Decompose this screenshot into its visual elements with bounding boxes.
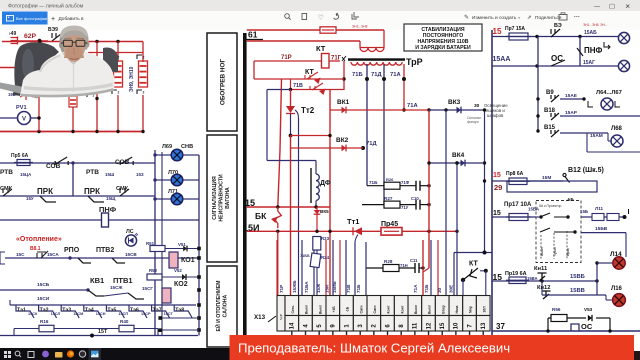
webcam person chair back [14,42,59,93]
svg-text:Тэ4: Тэ4 [85,308,94,314]
svg-text:2: 2 [118,91,120,95]
taskbar app purple [42,351,49,358]
svg-text:15СБ: 15СБ [37,282,50,288]
svg-text:71ББ: 71ББ [300,254,310,258]
svg-text:шкафов: шкафов [487,113,504,118]
svg-text:71Р: 71Р [279,285,284,293]
box heating of feet [207,33,237,131]
strip stubs [291,331,293,335]
svg-text:V53: V53 [584,307,593,312]
wire v484 [484,110,486,253]
svg-text:15: 15 [493,210,501,217]
svg-text:R16: R16 [40,319,49,324]
svg-text:РТВ: РТВ [86,169,99,176]
svg-text:15СЛ: 15СЛ [51,312,61,316]
svg-text:Впер: Впер [441,305,445,313]
taskbar taskview [28,352,34,358]
svg-text:НЕИСПРАВНОСТИ: НЕИСПРАВНОСТИ [219,174,225,221]
svg-text:PV1: PV1 [16,105,27,111]
svg-text:КО1: КО1 [181,257,195,264]
svg-text:15И: 15И [325,285,330,293]
transformer core [348,58,405,61]
svg-text:12: 12 [426,322,432,329]
svg-text:71В: 71В [293,83,303,89]
svg-text:Выкл: Выкл [305,305,309,314]
bus 61 top wire [247,29,384,31]
svg-text:ПНФ: ПНФ [584,46,603,55]
transformer secondary [351,62,402,65]
clip above EN10 [137,55,142,59]
wire v73 blue [72,163,74,196]
svg-text:29: 29 [494,183,502,192]
svg-text:Л16: Л16 [611,286,623,292]
svg-text:В18: В18 [544,108,556,114]
svg-text:15АБ: 15АБ [584,30,597,36]
svg-text:Пр8 6А: Пр8 6А [506,171,524,177]
svg-text:71Б: 71Б [352,72,363,78]
svg-text:⌄: ⌄ [517,15,521,21]
svg-text:30Е: 30Е [449,285,454,293]
dashed box AB [536,201,581,263]
svg-text:Кн12: Кн12 [537,285,551,291]
svg-text:71Н: 71Н [400,263,408,268]
svg-text:Тэ6: Тэ6 [130,308,139,314]
svg-text:R28: R28 [384,259,393,264]
choke DF [310,168,312,203]
svg-text:71Д: 71Д [366,141,377,147]
svg-text:15З: 15З [136,172,144,177]
svg-text:71БА: 71БА [304,281,309,293]
svg-text:ЕЙ И ОТОПЛЕНИЕМ: ЕЙ И ОТОПЛЕНИЕМ [214,281,222,332]
bus 61 second wire [247,40,360,42]
wire heating row [0,252,5,264]
clip right top [604,42,610,49]
svg-text:15Ш: 15Ш [105,172,115,177]
webcam person head [62,28,87,63]
svg-text:СМК: СМК [0,186,13,192]
webcam person chest stripe [24,83,113,92]
wire link rows [290,79,292,90]
tap wire 71A [403,64,405,110]
wire BK drop [277,231,279,295]
svg-text:71Р: 71Р [281,55,292,61]
svg-text:15СА: 15СА [47,252,59,257]
svg-text:ЭН1...ЭН8, ЭН...: ЭН1...ЭН8, ЭН... [583,23,608,27]
svg-text:В8.1: В8.1 [30,246,41,252]
svg-text:ПРК: ПРК [37,187,53,196]
svg-text:Тэ2: Тэ2 [40,308,49,314]
webcam person nose mouth [74,48,76,54]
svg-text:Тэ3: Тэ3 [62,308,71,314]
svg-text:Сигн: Сигн [359,306,363,314]
webcam person torso [20,51,115,96]
wire v39 [38,95,40,132]
svg-text:R27: R27 [384,196,393,201]
wire row PRK [0,195,155,197]
svg-text:71У: 71У [401,205,409,210]
svg-text:С11: С11 [410,258,418,263]
wire vertical v118 top [117,42,119,63]
webcam person shoulder shade [40,56,60,73]
webcam person neck [64,48,84,58]
svg-text:2: 2 [143,91,145,95]
second red bus behind person [0,67,40,69]
svg-text:Конт: Конт [387,305,391,313]
svg-text:Выкл: Выкл [414,305,418,314]
svg-text:71А: 71А [407,103,418,109]
svg-text:С10: С10 [411,196,419,201]
svg-text:В9: В9 [546,90,554,96]
rail 15 vertical [491,30,493,348]
svg-text:15АМ: 15АМ [590,133,603,139]
svg-text:ЛС: ЛС [126,229,134,235]
svg-text:Сигн: Сигн [373,306,377,314]
taskbar search [15,351,20,356]
svg-text:15СП: 15СП [118,312,128,316]
svg-text:КТ: КТ [469,261,478,268]
svg-text:Изменить и создать: Изменить и создать [472,15,517,21]
svg-text:15ВВ: 15ВВ [570,288,585,294]
taskbar start [4,351,11,358]
svg-text:В12 (Шк.5): В12 (Шк.5) [568,167,604,174]
heater EN10 [139,61,148,87]
svg-text:⇗: ⇗ [527,15,532,21]
branch wire resistors [14,328,39,330]
heater EN8 [69,92,77,107]
svg-text:«Отопление»: «Отопление» [16,236,62,243]
wire PNF row [0,219,199,221]
svg-text:Преподаватель: Шматок Сергей А: Преподаватель: Шматок Сергей Алексеевич [238,341,510,356]
svg-text:ВК4: ВК4 [452,152,465,159]
svg-text:Сеть: Сеть [291,305,295,313]
svg-text:Пр19 6А: Пр19 6А [505,271,527,277]
svg-text:ПТВ1: ПТВ1 [113,276,133,285]
webcam person hem [21,90,114,96]
svg-text:ВК3: ВК3 [448,99,461,106]
wire row RTV SOV [0,162,155,164]
wire loop 29 [507,181,597,192]
svg-text:15СВ: 15СВ [125,252,137,257]
svg-text:ВК1: ВК1 [337,99,350,106]
svg-text:R26: R26 [386,177,394,182]
wire rail v162 [161,152,163,336]
svg-text:15СМ: 15СМ [73,312,83,316]
svg-text:15СР: 15СР [141,312,151,316]
taskbar app circle [79,351,85,357]
webcam person desk corner [0,83,44,99]
wire v330 [329,90,331,296]
junction dot Tt2 cathode [289,134,293,138]
webcam person chair right [103,47,118,72]
svg-text:71Б: 71Б [369,180,378,185]
svg-text:15АР: 15АР [565,110,578,116]
svg-text:Кн11: Кн11 [534,266,548,272]
svg-text:R23: R23 [321,236,330,241]
clip below EN9 [112,90,117,94]
taskbar [0,348,230,360]
wire upper link [88,52,143,54]
svg-text:♡: ♡ [318,15,324,22]
svg-text:Добавить в: Добавить в [59,16,85,22]
svg-text:V52: V52 [174,268,182,273]
svg-text:R24: R24 [321,255,330,260]
svg-text:+: + [51,16,55,23]
svg-text:Все фотографии: Все фотографии [16,16,47,21]
svg-text:Фотографии — личный альбом: Фотографии — личный альбом [8,3,84,10]
svg-text:Л64...Л67: Л64...Л67 [596,90,622,96]
svg-text:Мор: Мор [469,306,473,313]
svg-text:✎: ✎ [464,14,469,21]
svg-text:5А к Проектор: 5А к Проектор [539,204,562,208]
svg-text:Тэ5: Тэ5 [107,308,116,314]
svg-text:2: 2 [143,56,145,60]
toolbar print [559,15,567,21]
svg-text:Х13: Х13 [254,314,266,321]
svg-text:Пр7 15А: Пр7 15А [505,26,525,32]
svg-text:РПО: РПО [64,247,80,254]
wire vertical v97 [96,42,98,132]
wire v73 [72,107,74,132]
svg-text:V51: V51 [178,242,186,247]
svg-text:Тт2: Тт2 [301,106,315,115]
svg-text:11: 11 [413,322,419,329]
webcam person ears [59,41,63,48]
tap wire 71B [366,64,368,186]
svg-text:Выкл: Выкл [318,305,322,314]
window title bar [0,0,640,11]
svg-text:71Д: 71Д [371,72,382,78]
contact KT bottom [454,252,492,254]
wire top bus 61V [2,41,143,43]
svg-text:КВ1: КВ1 [90,276,104,285]
svg-text:R40: R40 [120,319,129,324]
wire vertical v143 top [142,42,144,63]
contact arrow left [20,94,33,100]
svg-text:71А: 71А [390,72,401,78]
wire bottom red bus [0,131,143,133]
svg-text:Тускл: Тускл [553,247,557,256]
svg-text:СОВ: СОВ [46,163,61,170]
taskbar app photos active [89,348,102,360]
wire 62P [18,40,49,42]
svg-text:71В: 71В [346,284,351,293]
svg-text:БК: БК [255,211,267,221]
svg-text:фонари: фонари [467,120,479,124]
svg-text:30: 30 [437,287,442,293]
switch mark right of KT [342,56,346,61]
svg-text:Поделиться: Поделиться [535,15,562,21]
wire Tt2 down [290,136,292,296]
cathode wire Tt2 [290,114,292,136]
svg-text:Ярко: Ярко [566,248,570,256]
connector left edge [11,37,18,45]
svg-text:15СГ: 15СГ [142,286,153,291]
svg-text:САЛОНА: САЛОНА [223,294,229,317]
svg-text:Л11: Л11 [595,206,604,211]
lamp L62 [618,60,629,71]
switch V9 block rail [537,37,539,132]
toolbar icons middle [285,12,359,20]
svg-text:R52: R52 [149,268,158,273]
svg-text:ПТВ2: ПТВ2 [96,247,114,254]
svg-text:›49: ›49 [9,31,16,37]
svg-text:ВЭ: ВЭ [554,23,562,29]
svg-text:15ЖБ: 15ЖБ [292,280,297,293]
svg-text:Конт: Конт [400,305,404,313]
thermal contacts Te1-Te8 [16,305,192,318]
wire v118 bottom [117,95,119,132]
svg-text:15СЖ: 15СЖ [110,285,123,290]
svg-text:ВК5: ВК5 [320,209,329,214]
svg-text:15СТ: 15СТ [164,312,174,316]
svg-text:···: ··· [574,15,580,21]
svg-text:15М: 15М [542,175,551,181]
svg-text:СНВ: СНВ [181,144,193,150]
clip near EN8 [87,93,92,97]
svg-text:15Б: 15Б [580,209,588,214]
svg-text:В15: В15 [544,125,556,131]
svg-text:✕: ✕ [625,3,631,10]
svg-text:Тэ1: Тэ1 [17,308,26,314]
clip above EN9 [112,55,117,59]
webcam person hair [60,26,89,43]
svg-text:15АЕ: 15АЕ [565,93,578,99]
wire lamp rail v155 [154,150,156,336]
transformer TrR primary [360,47,384,49]
svg-text:15ИБ: 15ИБ [332,281,337,293]
svg-text:ПРК: ПРК [84,187,100,196]
wire 15 row [247,206,330,208]
svg-text:30: 30 [474,103,480,109]
heater EN9 [114,61,123,87]
box saloon heating control [207,266,237,347]
svg-text:СИГНАЛИЗАЦИЯ: СИГНАЛИЗАЦИЯ [212,176,218,220]
svg-text:15АГ: 15АГ [583,60,595,66]
svg-text:R56: R56 [552,307,561,312]
svg-text:15: 15 [440,322,446,329]
svg-text:14: 14 [290,322,296,329]
svg-text:71Ф: 71Ф [401,180,410,185]
svg-text:15ЦА: 15ЦА [20,172,32,177]
svg-text:15СН: 15СН [96,312,106,316]
wire 71R vertical [278,79,282,207]
svg-text:61: 61 [248,30,258,40]
svg-text:15ВА: 15ВА [527,276,538,281]
wire bottom resistor row [0,335,198,337]
wire v344 [343,61,345,90]
coil OS [571,324,579,331]
svg-text:ЭН9, ЭН10: ЭН9, ЭН10 [129,66,135,92]
svg-text:—: — [594,4,600,10]
svg-text:Наза: Наза [455,305,459,313]
toolbar [0,11,640,30]
junction dot v97 [95,97,98,100]
taskbar app folder [55,352,63,358]
gate wire Tt2 [295,110,299,118]
svg-text:15: 15 [493,27,502,36]
taskbar app firefox [67,350,74,357]
box fault signalling [207,135,237,262]
svg-text:15Щ: 15Щ [106,196,116,201]
webcam person glasses [61,40,88,46]
thick bus line [243,33,247,336]
wire 30 vertical [445,110,447,295]
svg-text:13: 13 [481,322,487,329]
contacts in AB box [540,213,568,217]
wire y135 link [291,135,331,137]
svg-text:Тэ7: Тэ7 [153,308,162,314]
svg-text:Тт1: Тт1 [347,217,359,226]
svg-text:ВАГОНА: ВАГОНА [225,187,231,209]
svg-text:Тэ8: Тэ8 [175,308,184,314]
svg-text:15У: 15У [26,196,34,201]
svg-text:15БВ: 15БВ [595,226,608,232]
dashed selectors [541,231,567,259]
svg-text:16Л: 16Л [482,306,486,313]
svg-text:37: 37 [496,322,505,331]
svg-text:+1Б: +1Б [332,306,336,313]
svg-text:Ч·Р: Ч·Р [280,313,284,319]
wire drops to strip [276,240,278,295]
box stabilization [404,24,482,51]
svg-text:15: 15 [493,172,501,179]
webcam person collar [63,52,83,64]
wire 15I row [247,230,457,232]
svg-text:-1Б: -1Б [346,306,350,312]
wire L68 right [586,133,588,152]
svg-text:15Т: 15Т [98,329,108,335]
svg-text:ТрР: ТрР [406,57,423,67]
wire 71A vertical [428,110,430,268]
svg-text:Выкл: Выкл [428,305,432,314]
svg-text:10: 10 [454,322,460,329]
svg-text:Л68: Л68 [611,126,623,132]
svg-text:15С: 15С [16,252,25,257]
svg-text:Л69: Л69 [162,144,172,150]
banner lecturer [230,335,635,360]
webcam person chair armrest [13,86,24,96]
blue loop wire [267,89,291,91]
svg-text:Выкл: Выкл [540,247,544,256]
svg-text:КТ: КТ [316,44,326,53]
svg-text:ОБОГРЕВ НОГ: ОБОГРЕВ НОГ [220,58,227,105]
svg-text:62Р: 62Р [24,33,37,40]
svg-text:71Б: 71Б [356,284,361,293]
svg-text:V: V [22,117,26,123]
svg-text:Пр5 6А: Пр5 6А [11,153,29,159]
svg-text:▢: ▢ [609,3,615,10]
svg-text:ВЭ9: ВЭ9 [48,27,58,33]
fuse on bus 61 [320,27,336,33]
webcam person brows [64,37,84,40]
wire v143 bottom [142,95,144,132]
lighting row 2 [492,65,618,67]
wire 30E vertical [456,163,458,295]
lamp L61 [618,32,629,43]
svg-text:ЭН1...ЭН8: ЭН1...ЭН8 [352,25,368,29]
svg-text:ВК2: ВК2 [336,137,349,144]
wire 15VB row [492,280,597,282]
tap wire 71D [383,64,385,205]
svg-text:И ЗАРЯДКИ БАТАРЕИ: И ЗАРЯДКИ БАТАРЕИ [415,45,471,51]
wire 15BV [581,232,626,234]
svg-text:ОС: ОС [581,322,593,331]
svg-text:РТВ: РТВ [0,169,13,176]
svg-text:15СК: 15СК [28,312,38,316]
svg-text:АБ: АБ [567,197,574,202]
svg-text:71Б: 71Б [424,284,429,293]
left rail v199 with taps [198,155,200,336]
